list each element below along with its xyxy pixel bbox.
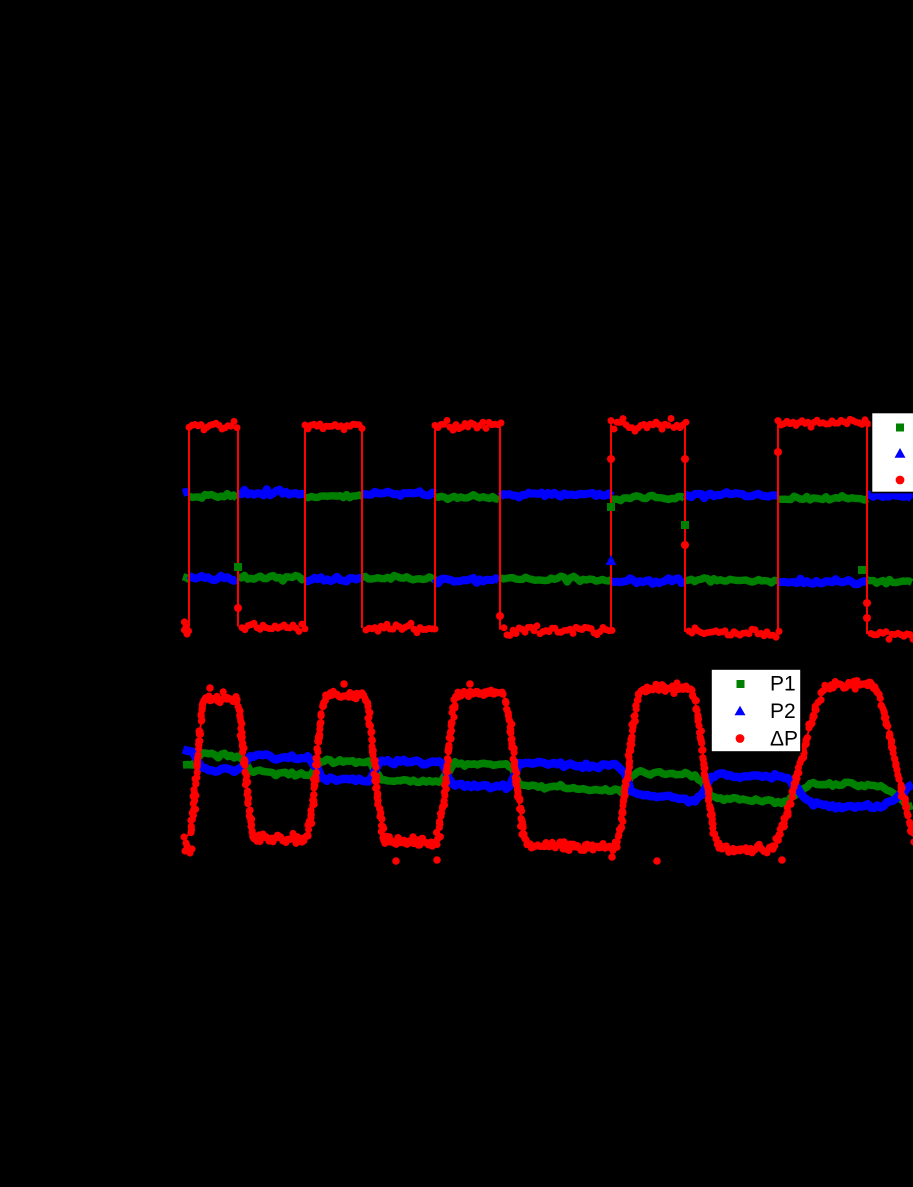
bottom plot: dP red trapezoid wave thin connecting line <box>183 684 911 851</box>
bottom legend labels <box>770 673 798 751</box>
top legend blue triangle marker <box>895 448 906 458</box>
svg-text:ΔP: ΔP <box>770 728 798 751</box>
top plot: dP red square-wave vertical transition lines <box>189 423 867 634</box>
bottom legend green square marker <box>737 680 745 688</box>
bottom legend red circle marker <box>736 734 745 743</box>
svg-text:P2: P2 <box>770 700 796 723</box>
top plot: red start marker cluster <box>181 618 192 637</box>
top plot: stray red circles on verticals <box>234 448 871 622</box>
top plot legend box (clipped by canvas edge) <box>872 413 913 493</box>
top plot: P2 blue trace <box>183 489 912 584</box>
bottom plot: P1 green trace <box>183 753 913 807</box>
bottom plot: red start cluster <box>180 833 195 856</box>
svg-text:P1: P1 <box>770 673 796 696</box>
bottom plot: P2 blue trace <box>183 750 913 809</box>
bottom legend blue triangle marker <box>735 706 746 716</box>
top legend red circle marker <box>896 476 905 485</box>
top plot: dP red high plateaus (circle markers) <box>186 415 872 435</box>
top plot: stray blue triangle <box>606 555 617 565</box>
top plot: dP red low plateaus (circle markers) <box>239 620 913 643</box>
top plot: P1 green trace <box>183 494 912 584</box>
top plot: stray green squares <box>234 503 866 574</box>
bottom plot legend box <box>711 669 801 752</box>
bottom plot: stray red low-dip circles <box>206 680 786 865</box>
top legend green square marker <box>896 424 904 432</box>
bottom plot: dP red trapezoid wave circle markers <box>187 677 913 856</box>
